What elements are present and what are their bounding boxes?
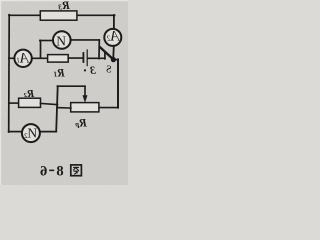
wire rheostat left <box>57 107 71 110</box>
label Rp (mirrored) <box>75 115 88 129</box>
wire left vertical <box>8 15 11 132</box>
switch terminal <box>104 53 106 59</box>
meter N2 subscript (mirrored 2) <box>24 131 28 140</box>
wire top right <box>77 14 115 16</box>
meter N <box>53 31 71 49</box>
label A1 (mirrored) <box>16 51 29 67</box>
svg-text:8: 8 <box>56 163 63 179</box>
label R1 (mirrored) <box>53 67 65 79</box>
label epsilon dot <box>84 69 86 71</box>
rheostat slider arrowhead <box>83 95 88 103</box>
resistor R2 <box>19 98 41 107</box>
svg-text:R3: R3 <box>58 0 71 12</box>
rheostat slider arrow stem <box>84 87 86 97</box>
label R3 (mirrored) <box>58 0 71 12</box>
wire N branch right <box>70 39 99 41</box>
ammeter A2 <box>104 29 121 46</box>
svg-text:N: N <box>56 33 66 48</box>
caption dash <box>49 170 54 172</box>
wire slider top <box>57 85 85 87</box>
svg-text:6: 6 <box>40 163 47 179</box>
switch pivot dot <box>111 57 116 62</box>
wire A1 to R1 <box>32 57 48 59</box>
resistor R3 <box>40 11 77 20</box>
label epsilon (mirrored 3-shape) <box>90 65 97 77</box>
caption 6 (mirrored) <box>40 163 47 179</box>
svg-text:2: 2 <box>24 131 28 140</box>
wire dot to right vertical <box>112 59 118 61</box>
label R2 (mirrored) <box>23 88 35 100</box>
svg-text:N: N <box>27 126 37 141</box>
wire middle right vertical <box>56 86 58 131</box>
caption character tu (mirrored box glyph) <box>71 165 82 176</box>
wire N branch left <box>40 40 54 42</box>
switch blade <box>100 47 113 59</box>
ammeter A1 <box>14 50 31 67</box>
node junction N-branch left <box>40 40 42 57</box>
svg-text:R1: R1 <box>53 67 65 79</box>
wire R1 to battery <box>68 57 83 59</box>
wire rheostat right <box>99 107 118 109</box>
wire R2 right <box>41 103 58 104</box>
rheostat Rp box <box>71 103 99 112</box>
battery plate short <box>82 53 84 62</box>
svg-text:3: 3 <box>90 65 97 77</box>
svg-text:S: S <box>106 65 112 76</box>
battery plate long <box>86 50 88 66</box>
resistor R1 <box>48 55 69 63</box>
voltmeter N2 <box>22 124 40 142</box>
wire middle left <box>9 57 15 59</box>
wire R2 left <box>9 102 19 104</box>
wire right vertical <box>117 59 119 107</box>
label A2 (mirrored) <box>107 28 121 44</box>
label S (mirrored) <box>106 65 112 76</box>
wire N branch right vertical <box>98 40 100 59</box>
wire A2 to switch <box>112 46 115 57</box>
wire top right corner vertical <box>113 15 115 30</box>
wire bottom left <box>9 131 23 133</box>
wire battery to switch <box>88 57 105 59</box>
wire top left <box>9 14 41 16</box>
wire bottom right <box>40 131 56 133</box>
